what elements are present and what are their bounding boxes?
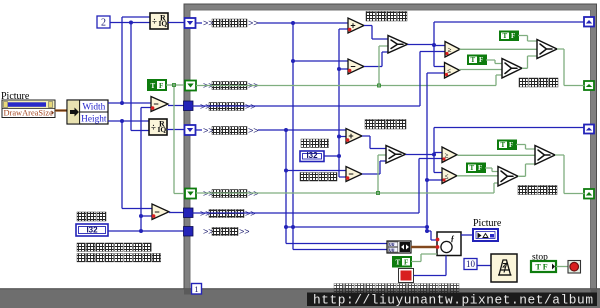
picture indicator terminal [473,229,498,241]
subtract node S1 [151,97,168,112]
label wire bottom max [199,209,256,219]
svg-text:Picture: Picture [473,218,502,229]
wire stop to conditional terminal [556,266,568,268]
wire width branch vertical [120,17,150,105]
wire QR2 output [167,129,185,131]
boolean constant TF2X [468,56,486,65]
Picture label [1,91,30,102]
wire 2 to QR1 [110,21,150,25]
subtract node X [348,59,364,74]
while loop frame [184,4,597,295]
wire less X output [459,69,502,71]
wire greater X output [460,48,538,50]
svg-text:1: 1 [194,284,198,294]
wire TF1Y to select [516,145,535,150]
wire Y direction main green [196,155,498,195]
shift register left Y position [185,125,196,135]
wait ms metronome [491,254,517,282]
svg-text:2: 2 [101,18,106,29]
svg-text:T: T [503,32,508,40]
svg-text:UU: UU [389,242,395,248]
svg-text:T: T [151,82,156,90]
label wire X switch [202,81,259,91]
label compute move coordinate max [77,254,161,262]
constant 10 [464,259,477,270]
boolean constant TF1X [500,32,518,41]
greater node Y [442,147,457,163]
wire cluster brown to unbundle [55,109,67,111]
svg-text:F: F [404,259,408,267]
shift register left X position [185,18,196,28]
caption draw solid circle [334,284,459,294]
label compute drawing area center [77,243,151,251]
svg-text:>>: >> [239,227,250,237]
tunnel right max [184,101,194,111]
wire select X dir2 to shift register [557,49,585,86]
svg-text:>>: >> [248,126,259,136]
wire right max to greater [193,52,446,107]
select node X direction 2 [537,40,557,59]
wire TF1X to select [518,36,537,42]
watermark url text [313,293,593,308]
svg-text:T: T [501,141,506,149]
wire X direction main green [196,46,502,87]
wire X position [196,21,348,25]
wire radius riser to subtract nodes [139,108,152,234]
wire mystery feed [284,225,427,229]
wire Y position [196,128,346,132]
wire bottom max to greater [193,159,443,214]
svg-text:F: F [511,32,515,40]
wire add Y to select [362,136,386,149]
select node X direction 1 [502,59,522,79]
wire width [108,102,151,104]
svg-text:F: F [509,141,513,149]
wire TF2Y to select [485,168,498,172]
wire radius [108,230,185,232]
wire TF2X to select [486,60,502,64]
label direction switch Y [518,186,557,195]
shift register right Y position [584,125,594,134]
label direction switch X [519,78,558,87]
svg-text:÷: ÷ [151,123,156,133]
svg-text:T: T [396,259,401,267]
wire less Y output [457,175,498,177]
wire 2 branch to QR2 [131,23,150,131]
unbundle node Width Height [67,100,108,125]
wire X position to subtract [293,60,348,62]
wire TF0 to shift registers [166,83,185,193]
label wire ball radius in frame [202,227,250,237]
tunnel ball radius [184,227,194,237]
wire select Y dir1 to dir2 [518,164,535,176]
wire 10 to wait [477,265,491,267]
select node Y direction 1 [498,167,518,187]
shift register left Y direction [185,189,196,199]
stop label [532,253,548,263]
wire height branch vertical [120,119,152,209]
wire color box to draw circle [414,256,447,276]
quotient-remainder node QR1 [150,13,168,29]
boolean constant TF3 [393,257,411,267]
constant 2 [97,16,110,29]
svg-text:F: F [478,164,482,172]
svg-text:http://liuyunantw.pixnet.net/a: http://liuyunantw.pixnet.net/album [313,293,593,308]
shift register right X position [584,17,594,27]
svg-text:>>: >> [248,18,259,28]
shift register right Y direction [584,189,594,199]
wire S2 output [169,212,185,214]
svg-text:T F: T F [536,263,548,272]
watermark bar [307,293,597,307]
wire greater Y output [458,154,536,156]
wire add X to select [364,26,388,40]
wire S1 output [168,105,185,107]
wire select Y output [406,128,585,173]
subtract node S2 [152,204,169,220]
tunnel bottom max [184,208,194,218]
wire Y position to subtract [286,170,346,172]
boolean constant TF1Y [498,141,516,150]
svg-text:F: F [479,56,483,64]
shift register left X direction [185,81,196,91]
label wire X coords [202,18,259,28]
less node X [445,63,460,79]
wire select Y dir2 to shift register [555,155,585,194]
bundle node [387,241,411,254]
svg-text:IQ: IQ [159,19,168,28]
svg-text:÷: ÷ [152,17,157,27]
stop button terminal [531,261,556,272]
svg-text:T: T [470,164,475,172]
wire bundle to draw circle brown [411,246,437,248]
label wire right max [199,102,256,112]
draw circle VI [436,232,461,256]
add node Y [346,129,362,144]
quotient-remainder node QR2 [149,119,167,135]
wire speed distribution [337,29,348,177]
wire TF3 to draw circle [411,254,437,262]
scrollbar bar [0,289,600,308]
label ball radius [77,212,106,221]
wire X position vertical to bundle [291,23,387,250]
numeric control I32 speed [300,151,324,162]
boolean constant TF0 [148,80,166,90]
svg-text:DrawAreaSize: DrawAreaSize [4,109,54,118]
subtract node Y [346,167,362,182]
label wire Y switch [202,189,259,199]
svg-text:UU: UU [389,248,395,254]
less node Y [442,168,457,184]
wire height [108,120,150,122]
svg-text:F: F [159,82,163,90]
numeric control I32 radius [76,224,108,236]
select node X position [388,36,408,54]
wire speed out [324,155,339,157]
add node X [348,18,364,33]
frame edge stubs over scrollbar [184,289,597,303]
label coordinate calc X [366,12,407,22]
wire radius riser to less nodes [425,73,445,233]
color box constant red [399,269,414,283]
svg-text:IQ: IQ [158,125,167,134]
loop conditional terminal [568,261,581,274]
label speed control [300,173,337,182]
svg-text:I32: I32 [86,226,98,235]
boolean constant TF2Y [467,164,485,173]
property node DrawAreaSize [2,100,55,118]
label coordinate calc Y [365,120,406,130]
label move amount [301,139,329,148]
wire select X dir1 to dir2 [522,56,537,68]
svg-text:ƒ: ƒ [451,234,455,243]
wire Y position vertical to bundle [284,130,387,244]
wire draw circle to picture indicator [461,234,473,236]
shift register right X direction [584,81,594,90]
loop iteration box 1 [192,284,202,295]
select node Y direction 2 [535,146,555,165]
wire select X output [408,22,585,67]
label wire Y coords [202,126,259,136]
wire sub X to select [364,52,388,67]
svg-text:I32: I32 [306,151,318,160]
select node Y position [386,146,406,164]
svg-text:10: 10 [466,259,476,269]
Picture indicator label [473,218,502,229]
greater node X [445,42,460,58]
wire radius to draw circle [427,231,437,240]
wire sub Y to select [362,161,386,174]
svg-text:T: T [471,56,476,64]
svg-text:Height: Height [81,115,107,125]
svg-text:Width: Width [82,103,105,113]
wire QR1 output [168,22,185,24]
